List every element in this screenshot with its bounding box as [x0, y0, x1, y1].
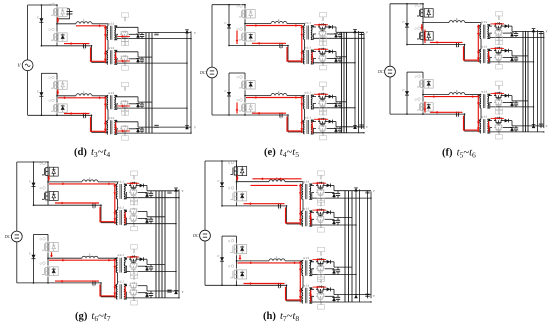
svg-text:DC: DC: [377, 69, 384, 74]
svg-text:L: L: [455, 89, 458, 93]
svg-text:L: L: [277, 90, 280, 94]
svg-text:(d)t3~t4: (d)t3~t4: [74, 147, 110, 159]
svg-text:C: C: [279, 208, 281, 211]
svg-text:C: C: [279, 287, 281, 290]
svg-text:n:1:1: n:1:1: [303, 180, 310, 183]
svg-text:DC: DC: [192, 233, 199, 238]
svg-text:L: L: [88, 176, 91, 180]
svg-text:n:1:1: n:1:1: [481, 91, 488, 94]
svg-text:Q: Q: [415, 98, 417, 101]
svg-text:Q: Q: [49, 29, 51, 32]
svg-text:(e)t4~t5: (e)t4~t5: [264, 147, 299, 159]
svg-text:(g)t6~t7: (g)t6~t7: [75, 311, 111, 323]
svg-text:C: C: [280, 117, 282, 120]
svg-text:(h)t7~t8: (h)t7~t8: [263, 311, 299, 323]
svg-text:n:1:1: n:1:1: [303, 257, 310, 260]
svg-text:Q: Q: [40, 187, 42, 190]
svg-text:L: L: [275, 255, 278, 259]
svg-text:Q: Q: [237, 99, 239, 102]
svg-text:Q: Q: [415, 4, 417, 7]
svg-text:Q: Q: [228, 240, 230, 243]
svg-text:n:1:1: n:1:1: [481, 46, 488, 49]
svg-text:L: L: [82, 18, 85, 22]
svg-text:Q: Q: [237, 5, 239, 8]
svg-text:n:1:1: n:1:1: [303, 284, 310, 287]
svg-text:n:1:1: n:1:1: [481, 116, 488, 119]
svg-text:C: C: [93, 285, 95, 288]
svg-text:Q: Q: [49, 4, 51, 7]
svg-text:Q: Q: [40, 238, 42, 241]
svg-text:Q: Q: [49, 77, 51, 80]
svg-text:L: L: [455, 17, 458, 21]
svg-text:DC: DC: [4, 234, 11, 239]
svg-text:L: L: [275, 176, 278, 180]
svg-text:Q: Q: [228, 162, 230, 165]
svg-text:n:1:1: n:1:1: [108, 22, 115, 25]
svg-text:C: C: [84, 117, 86, 120]
svg-text:L: L: [88, 253, 91, 257]
svg-text:C: C: [93, 207, 95, 210]
svg-text:Q: Q: [237, 76, 239, 79]
svg-text:Q: Q: [415, 75, 417, 78]
svg-text:n:1:1: n:1:1: [118, 181, 125, 184]
svg-text:Q: Q: [40, 163, 42, 166]
svg-text:n:1:1: n:1:1: [303, 207, 310, 210]
svg-text:C: C: [280, 47, 282, 50]
svg-text:C: C: [457, 46, 459, 49]
svg-text:n:1:1: n:1:1: [108, 117, 115, 120]
svg-text:Q: Q: [415, 27, 417, 30]
svg-text:n:1:1: n:1:1: [118, 281, 125, 284]
svg-text:n:1:1: n:1:1: [118, 254, 125, 257]
svg-text:n:1:1: n:1:1: [305, 92, 312, 95]
svg-text:C: C: [457, 116, 459, 119]
svg-text:n:1:1: n:1:1: [481, 21, 488, 24]
svg-text:Q: Q: [228, 265, 230, 268]
svg-text:n:1:1: n:1:1: [118, 207, 125, 210]
svg-text:n:1:1: n:1:1: [108, 92, 115, 95]
svg-text:n:1:1: n:1:1: [305, 22, 312, 25]
svg-text:Q: Q: [40, 262, 42, 265]
svg-text:n:1:1: n:1:1: [305, 47, 312, 50]
svg-text:Q: Q: [228, 187, 230, 190]
svg-text:L: L: [277, 18, 280, 22]
svg-text:n:1:1: n:1:1: [108, 47, 115, 50]
svg-text:L: L: [82, 90, 85, 94]
svg-text:n:1:1: n:1:1: [305, 117, 312, 120]
svg-text:Q: Q: [49, 100, 51, 103]
svg-text:DC: DC: [199, 70, 206, 75]
svg-text:(f)t5~t6: (f)t5~t6: [442, 148, 476, 160]
svg-text:C: C: [84, 47, 86, 50]
